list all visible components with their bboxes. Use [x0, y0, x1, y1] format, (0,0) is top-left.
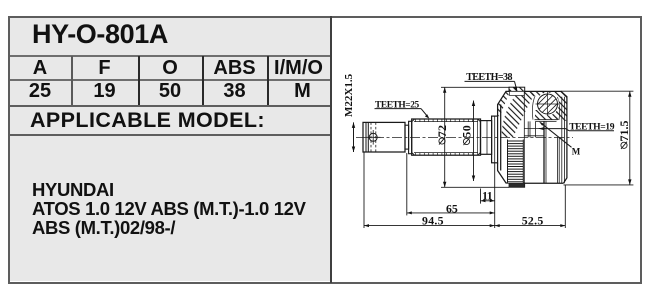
TEETH=19 label [538, 121, 614, 132]
column dividers [71, 56, 73, 105]
row line under title [10, 55, 330, 57]
svg-text:11: 11 [482, 189, 493, 203]
model text block [32, 181, 306, 237]
M label [539, 122, 581, 157]
part number title [32, 19, 168, 50]
diameter 72 dimension [435, 87, 510, 187]
joint body outline [498, 91, 567, 183]
spline cylinder TEETH=25 [412, 119, 481, 155]
ABS ring bottom [509, 183, 525, 187]
svg-text:50: 50 [459, 125, 473, 138]
ball with crosshair [536, 92, 560, 116]
svg-text:94.5: 94.5 [422, 213, 444, 227]
spline ticks bottom [416, 153, 473, 156]
spline ticks top [416, 119, 473, 122]
shaft step section [405, 121, 412, 153]
spline bore lines [524, 91, 544, 183]
chamfer edge hatch [498, 91, 510, 116]
svg-text:65: 65 [446, 201, 458, 215]
M22X1.5 thread label [343, 73, 355, 117]
ring side face band [510, 91, 525, 95]
hatched section band top [502, 91, 567, 137]
vertical divider [330, 16, 332, 283]
thread circle symbol [366, 130, 381, 145]
spline bore striped column TEETH=19 [508, 140, 524, 183]
threaded stub [363, 122, 405, 152]
dimension 11 [481, 189, 495, 204]
values row [8, 80, 72, 103]
header row [8, 57, 72, 80]
svg-text:72: 72 [435, 125, 449, 137]
ABS ring top TEETH=38 [509, 87, 525, 91]
diameter 71.5 dimension [561, 91, 633, 185]
centerline [356, 136, 573, 138]
back flange [492, 116, 498, 163]
row line under applicable model [10, 134, 330, 136]
row line under values [10, 105, 330, 107]
diameter 50 dimension [459, 101, 475, 182]
M22 dimension line [352, 122, 355, 152]
left gray panel [10, 18, 330, 281]
svg-text:52.5: 52.5 [522, 213, 544, 227]
boot groove neck [481, 121, 492, 155]
applicable model row [30, 108, 265, 133]
cage and race verticals [528, 97, 564, 184]
cylinder corner chamfers [412, 119, 481, 155]
svg-text:M22X1.5: M22X1.5 [343, 73, 355, 117]
inner race lines below ball [535, 120, 558, 122]
TEETH=38 label [465, 72, 518, 92]
svg-text:M: M [572, 146, 581, 156]
dimension 52.5 [495, 185, 566, 228]
svg-text:71.5: 71.5 [617, 121, 631, 142]
dimension 65 [407, 153, 495, 215]
TEETH=25 label [375, 100, 430, 118]
row line under header [10, 79, 330, 81]
dimension 94.5 [364, 153, 495, 229]
ball cavity arcs [532, 97, 559, 120]
